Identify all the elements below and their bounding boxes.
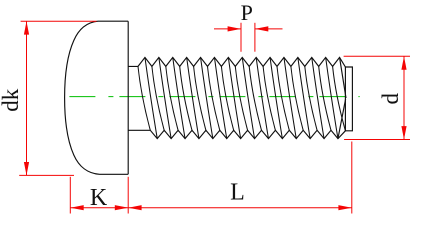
svg-text:d: d: [378, 93, 403, 105]
svg-text:K: K: [90, 185, 108, 211]
svg-text:P: P: [241, 0, 253, 25]
svg-text:L: L: [230, 180, 245, 206]
svg-text:dk: dk: [0, 88, 23, 112]
